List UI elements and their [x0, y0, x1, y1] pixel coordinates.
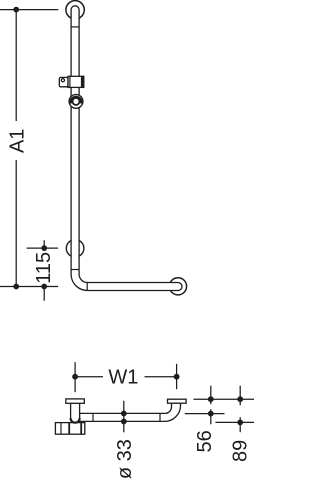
strip holder edge right [80, 423, 82, 435]
holder ring inner [73, 98, 80, 105]
tube joint line above bend [71, 269, 79, 271]
holder ring outer [69, 95, 83, 109]
dim W1 left tick [74, 362, 76, 392]
slider body [68, 76, 84, 87]
wall rosette circle [66, 240, 84, 258]
dim 115 vertical line [43, 240, 45, 301]
dim 56 dot top [208, 396, 214, 402]
dim 89 bottom tick [239, 417, 241, 432]
svg-text:56: 56 [194, 430, 216, 452]
dim diameter 33 leader line [123, 401, 125, 433]
strip inner line left [60, 423, 62, 435]
top wall flange circle [66, 1, 84, 19]
top view rail tube with right elbow [80, 403, 181, 421]
svg-text:A1: A1 [6, 129, 28, 153]
dim 56 bottom tick [210, 409, 212, 424]
slider strip top view [55, 423, 84, 435]
slider knob [59, 77, 68, 86]
dim W1 dot right [174, 374, 180, 380]
holder ring upper band [71, 97, 81, 103]
svg-text:115: 115 [33, 252, 55, 284]
svg-text:89: 89 [230, 440, 252, 462]
tube joint line after bend [86, 283, 88, 291]
top view tube joint line right [159, 413, 161, 421]
dim 56 top tick [210, 386, 212, 405]
dim diameter 33 dot top [121, 411, 127, 417]
right flange plate top view [168, 399, 187, 403]
dim A1 dot bottom [13, 284, 19, 290]
left flange stem cap thick arc [71, 418, 80, 423]
dim 115 bottom reference line [0, 286, 58, 288]
dim 89 top tick [239, 386, 241, 406]
left flange plate top view [66, 399, 85, 403]
dim diameter 33 dot bottom [121, 419, 127, 425]
svg-text:W1: W1 [108, 366, 138, 388]
slider body left line [69, 76, 71, 87]
slider knob screw [61, 79, 64, 82]
slider body right band [81, 76, 84, 87]
dim 89 dot bottom [237, 420, 243, 426]
dim 115 dot top [41, 245, 47, 251]
strip holder edge left [68, 423, 70, 435]
dim W1 right tick [176, 364, 178, 389]
dim 56 reference line [185, 413, 225, 415]
dim 115 dot bottom [41, 284, 47, 290]
left flange stem top view [71, 403, 80, 423]
L-shaped grab rail tube [71, 6, 182, 291]
tube joint line top [71, 26, 79, 28]
svg-text:ø 33: ø 33 [114, 439, 136, 479]
dim A1 dot top [13, 7, 19, 13]
dim A1 vertical line [15, 10, 17, 287]
dim 56 dot bottom [208, 411, 214, 417]
top view tube joint line left [92, 413, 94, 421]
dim A1 top reference line [0, 9, 58, 11]
wall reference line [194, 398, 255, 400]
dim W1 line [75, 376, 177, 378]
right wall flange circle [169, 278, 186, 295]
dim W1 dot left [72, 374, 78, 380]
dim 89 dot top [237, 396, 243, 402]
dim 89 reference line [215, 421, 254, 423]
dim 115 top tick [27, 247, 58, 249]
